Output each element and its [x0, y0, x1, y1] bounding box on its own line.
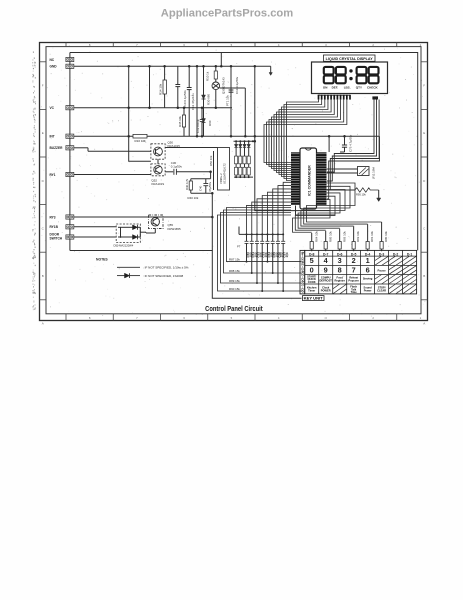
wire DOOR SWITCH rail — [74, 236, 116, 238]
svg-text:R35 10k: R35 10k — [178, 116, 182, 127]
resistor R34 — [163, 65, 166, 108]
LCD digit 8 (2) — [336, 67, 346, 83]
wire long vertical x255 from GND rail — [254, 65, 330, 211]
label C10 0.1u/50v — [183, 90, 187, 108]
label R81 10k — [370, 231, 374, 242]
svg-text:1: 1 — [420, 316, 422, 320]
svg-text:BUZZER: BUZZER — [50, 146, 64, 150]
wire bottom left run to key unit — [70, 251, 302, 299]
svg-text:7: 7 — [352, 265, 356, 274]
capacitor C55 — [271, 234, 275, 274]
op-amp U11 box — [218, 148, 230, 191]
key matrix row 4 hatched cells — [333, 284, 417, 294]
svg-text:KRA101S: KRA101S — [152, 182, 165, 186]
svg-text:5: 5 — [310, 256, 314, 265]
svg-text:D-1: D-1 — [407, 252, 413, 256]
label C51 103 — [251, 252, 257, 258]
label VC — [50, 106, 55, 110]
resistor R10 and transistor Q30 — [212, 65, 247, 137]
svg-text:LBS.: LBS. — [344, 85, 351, 89]
inner border frame — [46, 47, 421, 314]
label C12 — [196, 119, 200, 133]
wire VDD tap — [328, 136, 330, 152]
label R88 15k — [229, 269, 240, 273]
label R85 10k — [328, 231, 332, 242]
svg-text:8: 8 — [338, 265, 342, 274]
LCD digit 8 (3) — [357, 67, 367, 83]
svg-text:C11 47µ/16v: C11 47µ/16v — [191, 93, 195, 110]
wire RY1 rail — [74, 174, 151, 176]
connector pin BUZZER — [66, 146, 74, 150]
label D50 MA2120W4 — [114, 244, 134, 248]
frame zone letters — [42, 43, 427, 326]
svg-text:C10 0.1µ/50v: C10 0.1µ/50v — [183, 90, 187, 108]
svg-text:9: 9 — [324, 265, 328, 274]
svg-text:D-3: D-3 — [379, 252, 385, 256]
ground arrow under R95 — [377, 198, 381, 202]
wire IC1 comb to key column feeds — [293, 183, 382, 232]
svg-text:(G-1)(G-2)(G-3)(G-4): (G-1)(G-2)(G-3)(G-4) — [301, 252, 305, 293]
svg-text:Pause: Pause — [377, 268, 386, 272]
svg-text:QTY: QTY — [356, 85, 362, 89]
key Pause — [377, 268, 386, 272]
outer border frame — [40, 43, 428, 321]
svg-text:(F)1 16M: (F)1 16M — [372, 167, 376, 179]
svg-text:R30 680: R30 680 — [207, 94, 211, 105]
svg-text:DEF.: DEF. — [332, 85, 339, 89]
svg-text:R12 10k: R12 10k — [135, 139, 147, 143]
wire D50 to Q55 — [140, 231, 146, 234]
label D10 — [208, 120, 212, 126]
capacitor C51 — [250, 234, 254, 274]
svg-text:D-2: D-2 — [393, 252, 399, 256]
resistor R11 drop — [220, 53, 223, 68]
svg-text:F: F — [423, 84, 425, 88]
svg-text:Register: Register — [335, 278, 345, 282]
svg-text:Control Panel Circuit: Control Panel Circuit — [205, 306, 263, 313]
label GND — [50, 65, 58, 69]
label R12 10k — [135, 139, 147, 143]
capacitor C73 — [340, 136, 347, 152]
svg-text:D: D — [42, 179, 45, 183]
capacitor C57 — [281, 234, 285, 292]
svg-text:PT: PT — [237, 245, 241, 249]
svg-text:Timer: Timer — [308, 289, 315, 293]
svg-text:C40: C40 — [199, 185, 203, 191]
svg-text:NC: NC — [50, 58, 55, 62]
svg-text:: IF NOT SPECIFIED, 1/10w ± 5: : IF NOT SPECIFIED, 1/10w ± 5% — [143, 266, 189, 270]
label RY1B — [50, 225, 59, 229]
svg-text:R81 10k: R81 10k — [370, 231, 374, 242]
label Q52 KRA101S — [152, 179, 165, 187]
capacitor C56 — [276, 234, 280, 284]
svg-text:KRW1655: KRW1655 — [168, 227, 182, 231]
wire left vertical bus — [69, 53, 71, 251]
label C40 47u/50v — [199, 181, 212, 192]
svg-text:5: 5 — [231, 316, 233, 320]
label R35 10k — [178, 116, 182, 127]
connector pin RY3 — [66, 215, 74, 219]
resistor R50 line — [213, 151, 215, 190]
svg-text:47µ/50v: 47µ/50v — [208, 181, 212, 192]
svg-text:GND: GND — [50, 65, 58, 69]
resistor R95 — [327, 188, 379, 198]
label C11 47u/16v — [191, 93, 195, 110]
capacitor C11 — [196, 65, 199, 137]
wire BUZZER rail — [74, 148, 151, 152]
svg-text:Q30 DTA143: Q30 DTA143 — [222, 77, 226, 94]
capacitor C52 — [255, 234, 259, 284]
label C30 0.1u/50v — [171, 161, 183, 169]
svg-text:D: D — [423, 179, 426, 183]
capacitor drop x177.8 — [175, 66, 180, 109]
diode-resistor columns D60-D63 R60-R63 — [234, 141, 250, 177]
svg-text:R89 15k: R89 15k — [229, 279, 240, 283]
LCD mode labels ON DEF LBS QTY CHECK — [323, 85, 379, 89]
svg-text:SWITCH: SWITCH — [50, 237, 63, 241]
svg-text:R80 10k: R80 10k — [384, 231, 388, 242]
resistor R81 — [366, 224, 369, 251]
svg-text:POWER: POWER — [321, 289, 331, 293]
IC1 body — [300, 148, 317, 209]
LCD digit 8 (1) — [324, 67, 334, 83]
label R84 10k — [314, 231, 318, 242]
key matrix row 1 hatched cells — [375, 256, 417, 265]
IC1 left pin comb — [291, 152, 300, 205]
frame zone tick marks — [40, 43, 428, 321]
svg-text:R10 1k: R10 1k — [205, 71, 209, 81]
resistor R35 drop — [182, 106, 185, 136]
wire VC rail — [74, 107, 232, 109]
label C13 3.3u/50v — [235, 76, 239, 94]
svg-text:LIQUID CRYSTAL DISPLAY: LIQUID CRYSTAL DISPLAY — [326, 57, 374, 61]
label INT — [50, 135, 55, 139]
capacitor C40 — [203, 179, 208, 194]
wire x212 vertical — [211, 193, 213, 250]
label R11 15k — [225, 95, 229, 106]
connector pin RY1B — [66, 225, 74, 229]
label key matrix G column — [301, 252, 305, 293]
wire IC1 to capacitor array staircase — [247, 182, 291, 234]
wire side bus from LCD connector to IC1 right — [327, 100, 379, 191]
svg-text:A: A — [42, 322, 44, 326]
wire drop x149.5 — [148, 65, 151, 109]
capacitor array rail — [239, 227, 284, 236]
svg-text:R50 10k: R50 10k — [209, 155, 213, 166]
connector pin NC — [66, 57, 74, 61]
wire Q50-Q52 link — [157, 159, 159, 164]
connector pin VC — [66, 106, 74, 110]
svg-text:IC1 COMMANDER: IC1 COMMANDER — [308, 165, 312, 196]
wire Q55 emitter down — [146, 229, 155, 234]
label C73 4.7u/50v — [349, 134, 353, 152]
svg-text:R40 4.7k: R40 4.7k — [185, 178, 189, 190]
IC1 right pin comb — [317, 152, 327, 205]
svg-text:Time: Time — [351, 290, 358, 294]
svg-text:4: 4 — [324, 256, 329, 265]
label C56 103 — [277, 252, 283, 258]
svg-text:AppliancePartsPros.com: AppliancePartsPros.com — [161, 8, 293, 20]
label DOOR SWITCH — [50, 232, 63, 240]
connector pin INT — [66, 134, 74, 138]
svg-text:NOTES: NOTES — [96, 258, 108, 262]
resistor R40 — [189, 179, 192, 194]
label PT — [237, 245, 241, 249]
transistor Q50 — [151, 144, 165, 159]
key matrix row 3 hatched cells — [375, 275, 417, 285]
svg-text:D50 MA2120W4: D50 MA2120W4 — [114, 244, 134, 248]
capacitor C54 — [265, 234, 269, 262]
label R82 10k — [356, 231, 360, 242]
svg-text:ON: ON — [323, 85, 328, 89]
connector pin RY1 — [66, 172, 74, 176]
label R30 — [207, 94, 211, 105]
wire key row G2 — [224, 210, 302, 273]
svg-text:R40 10k: R40 10k — [188, 196, 199, 200]
svg-text:VD96+-2: VD96+-2 — [219, 173, 223, 184]
svg-text:R90 15k: R90 15k — [229, 287, 240, 291]
crystal X1 — [358, 167, 370, 176]
svg-text:2: 2 — [352, 256, 356, 265]
resistor R82 — [352, 226, 355, 251]
wire GND rail — [74, 65, 271, 67]
wire drop at x128.7 to transistor area — [127, 65, 150, 161]
capacitor C30 on RY1 line — [165, 169, 212, 175]
label R95 10k — [356, 193, 366, 197]
diode D10 and resistor R30 drop — [202, 65, 206, 136]
capacitor C10 — [187, 65, 192, 136]
svg-text:R88 15k: R88 15k — [229, 269, 240, 273]
svg-text:Serving: Serving — [363, 277, 373, 281]
label R40 4.7k — [185, 178, 189, 190]
svg-text:0: 0 — [310, 265, 314, 274]
svg-text:: IF NOT SPECIFIED, 1S2008: : IF NOT SPECIFIED, 1S2008 — [143, 274, 183, 278]
wire below IC bottom run — [296, 206, 336, 216]
label R90 15k — [229, 287, 240, 291]
svg-text:6: 6 — [366, 265, 370, 274]
label box LIQUID CRYSTAL DISPLAY — [324, 55, 376, 61]
label R10 1k — [205, 71, 209, 81]
label C57 103 — [283, 252, 289, 258]
resistor R85 — [324, 231, 327, 251]
wire INT rail long horizontal — [74, 135, 380, 138]
connector pin DOOR SWITCH — [66, 235, 74, 239]
svg-text:3: 3 — [325, 316, 327, 320]
label C54 103 — [267, 252, 273, 258]
svg-text:F: F — [42, 84, 44, 88]
resistor R83 — [338, 229, 341, 252]
label R40 10k — [188, 196, 199, 200]
wire key row G4 — [218, 215, 302, 291]
svg-text:C: C — [42, 226, 45, 230]
svg-text:DEFROST: DEFROST — [319, 278, 332, 282]
svg-text:CHECK: CHECK — [367, 85, 379, 89]
svg-text:U11(LM741)/LT2: U11(LM741)/LT2 — [223, 163, 227, 184]
label IC1 COMMANDER — [308, 165, 312, 196]
label Q55 KRW1655 — [168, 223, 182, 231]
wire display bus staircase — [264, 100, 347, 181]
capacitor C13 — [229, 65, 234, 137]
svg-text:A: A — [423, 322, 425, 326]
key matrix row 3 keys — [307, 274, 373, 284]
svg-text:8: 8 — [89, 316, 91, 320]
label R34 10k — [159, 83, 163, 95]
scan noise speckle — [41, 45, 425, 319]
svg-text:6: 6 — [183, 316, 185, 320]
svg-text:103: 103 — [285, 252, 289, 257]
wire RY1B rail — [74, 226, 116, 228]
key matrix row 2 digits — [310, 265, 370, 274]
label RY3 — [50, 215, 56, 219]
svg-text:R84 10k: R84 10k — [314, 231, 318, 242]
key matrix row 2 hatched cells — [389, 265, 417, 274]
label C52 103 — [256, 252, 262, 258]
svg-text:3: 3 — [338, 256, 342, 265]
svg-text:E: E — [423, 131, 425, 135]
svg-text:RY1: RY1 — [50, 173, 56, 177]
wire RY3 rail — [74, 216, 214, 219]
svg-text:KEY UNIT: KEY UNIT — [304, 297, 323, 301]
wire R40 block top — [191, 178, 211, 180]
svg-text:B: B — [42, 274, 44, 278]
label KEY UNIT — [303, 296, 325, 301]
wire key row G3 — [221, 213, 302, 284]
svg-text:R34 10k: R34 10k — [159, 83, 163, 95]
svg-text:C: C — [423, 226, 426, 230]
label RY1 — [50, 173, 56, 177]
svg-text:2: 2 — [372, 316, 374, 320]
label NC — [50, 58, 55, 62]
capacitor C50 — [245, 234, 249, 262]
svg-text:R95 10k: R95 10k — [356, 193, 366, 197]
transistor Q55 — [149, 215, 164, 229]
svg-text:INT: INT — [50, 135, 55, 139]
svg-text:COOK: COOK — [308, 280, 316, 284]
resistor network bottom rail — [234, 176, 253, 178]
watermark AppliancePartsPros.com — [161, 8, 293, 20]
connector pin GND — [66, 64, 74, 68]
wire Q50 collector to U11 — [165, 147, 217, 149]
label NOTES — [96, 258, 108, 262]
resistor R84 — [310, 233, 313, 251]
svg-text:Power: Power — [364, 289, 372, 293]
label CST 16M — [372, 167, 376, 179]
label Q30 DTA143 — [222, 77, 226, 94]
LCD pin header teeth — [318, 95, 350, 100]
label C55 103 — [272, 252, 278, 258]
svg-text:C73 4.7µ/50v: C73 4.7µ/50v — [349, 134, 353, 152]
key matrix header D-8..D-1 — [309, 252, 412, 256]
scan artifact band left edge — [32, 52, 36, 311]
svg-text:C13 3.3µ/50v: C13 3.3µ/50v — [235, 76, 239, 94]
svg-text:B: B — [423, 274, 425, 278]
ground stub arrow — [269, 66, 272, 75]
diode pack D50 — [116, 224, 140, 242]
svg-text:R82 10k: R82 10k — [356, 231, 360, 242]
svg-text:Popcorn: Popcorn — [348, 278, 359, 282]
svg-text:R87 15k: R87 15k — [229, 257, 240, 261]
svg-text:RY1B: RY1B — [50, 225, 59, 229]
wire from C30 junction down — [210, 172, 212, 179]
wire R40 block bottom — [191, 192, 214, 195]
label R80 10k — [384, 231, 388, 242]
wire schematic boundary box top and right — [70, 53, 418, 251]
svg-text:E: E — [42, 131, 44, 135]
svg-text:4: 4 — [278, 316, 280, 320]
label C50 103 — [246, 252, 252, 258]
label BUZZER — [50, 146, 64, 150]
svg-text:VC: VC — [50, 106, 55, 110]
key matrix row 4 keys — [307, 285, 386, 295]
svg-text:R83 10k: R83 10k — [342, 231, 346, 242]
svg-text:PT1 15k: PT1 15k — [225, 95, 229, 106]
label R83 10k — [342, 231, 346, 242]
LCD colon — [349, 69, 352, 80]
LCD display body — [312, 62, 388, 94]
crystal X1 wires — [327, 169, 358, 173]
svg-text:0.1µ/50v: 0.1µ/50v — [171, 165, 183, 169]
capacitor C12 drop — [200, 106, 204, 137]
note line diode spec — [117, 273, 183, 278]
resistor network R60-R63 rail — [234, 140, 257, 143]
LCD digit 8 (4) — [369, 67, 379, 83]
svg-text:D60: D60 — [208, 120, 212, 126]
LCD side connector — [372, 96, 378, 99]
svg-text:1: 1 — [366, 256, 370, 265]
wire INT rail end down to IC1 — [327, 136, 380, 199]
label Q50 KRA1015 — [168, 141, 181, 149]
transistor Q52 — [151, 164, 165, 176]
label R50 10k — [209, 155, 213, 166]
svg-text:CLEAR: CLEAR — [377, 289, 386, 293]
key matrix table grid — [300, 250, 417, 294]
capacitor C53 — [260, 234, 264, 292]
svg-text:C12 0.01µ: C12 0.01µ — [196, 119, 200, 133]
svg-text:R85 10k: R85 10k — [328, 231, 332, 242]
label R87 15k — [229, 257, 240, 261]
key matrix row 1 digits — [310, 256, 370, 265]
resistor R80 — [380, 222, 383, 251]
label C53 103 — [262, 252, 268, 258]
resistor R12 — [133, 134, 147, 138]
svg-text:RY3: RY3 — [50, 215, 56, 219]
svg-text:7: 7 — [136, 316, 138, 320]
wire key row G1 — [227, 208, 302, 262]
label R89 15k — [229, 279, 240, 283]
note line resistor spec — [117, 266, 189, 270]
